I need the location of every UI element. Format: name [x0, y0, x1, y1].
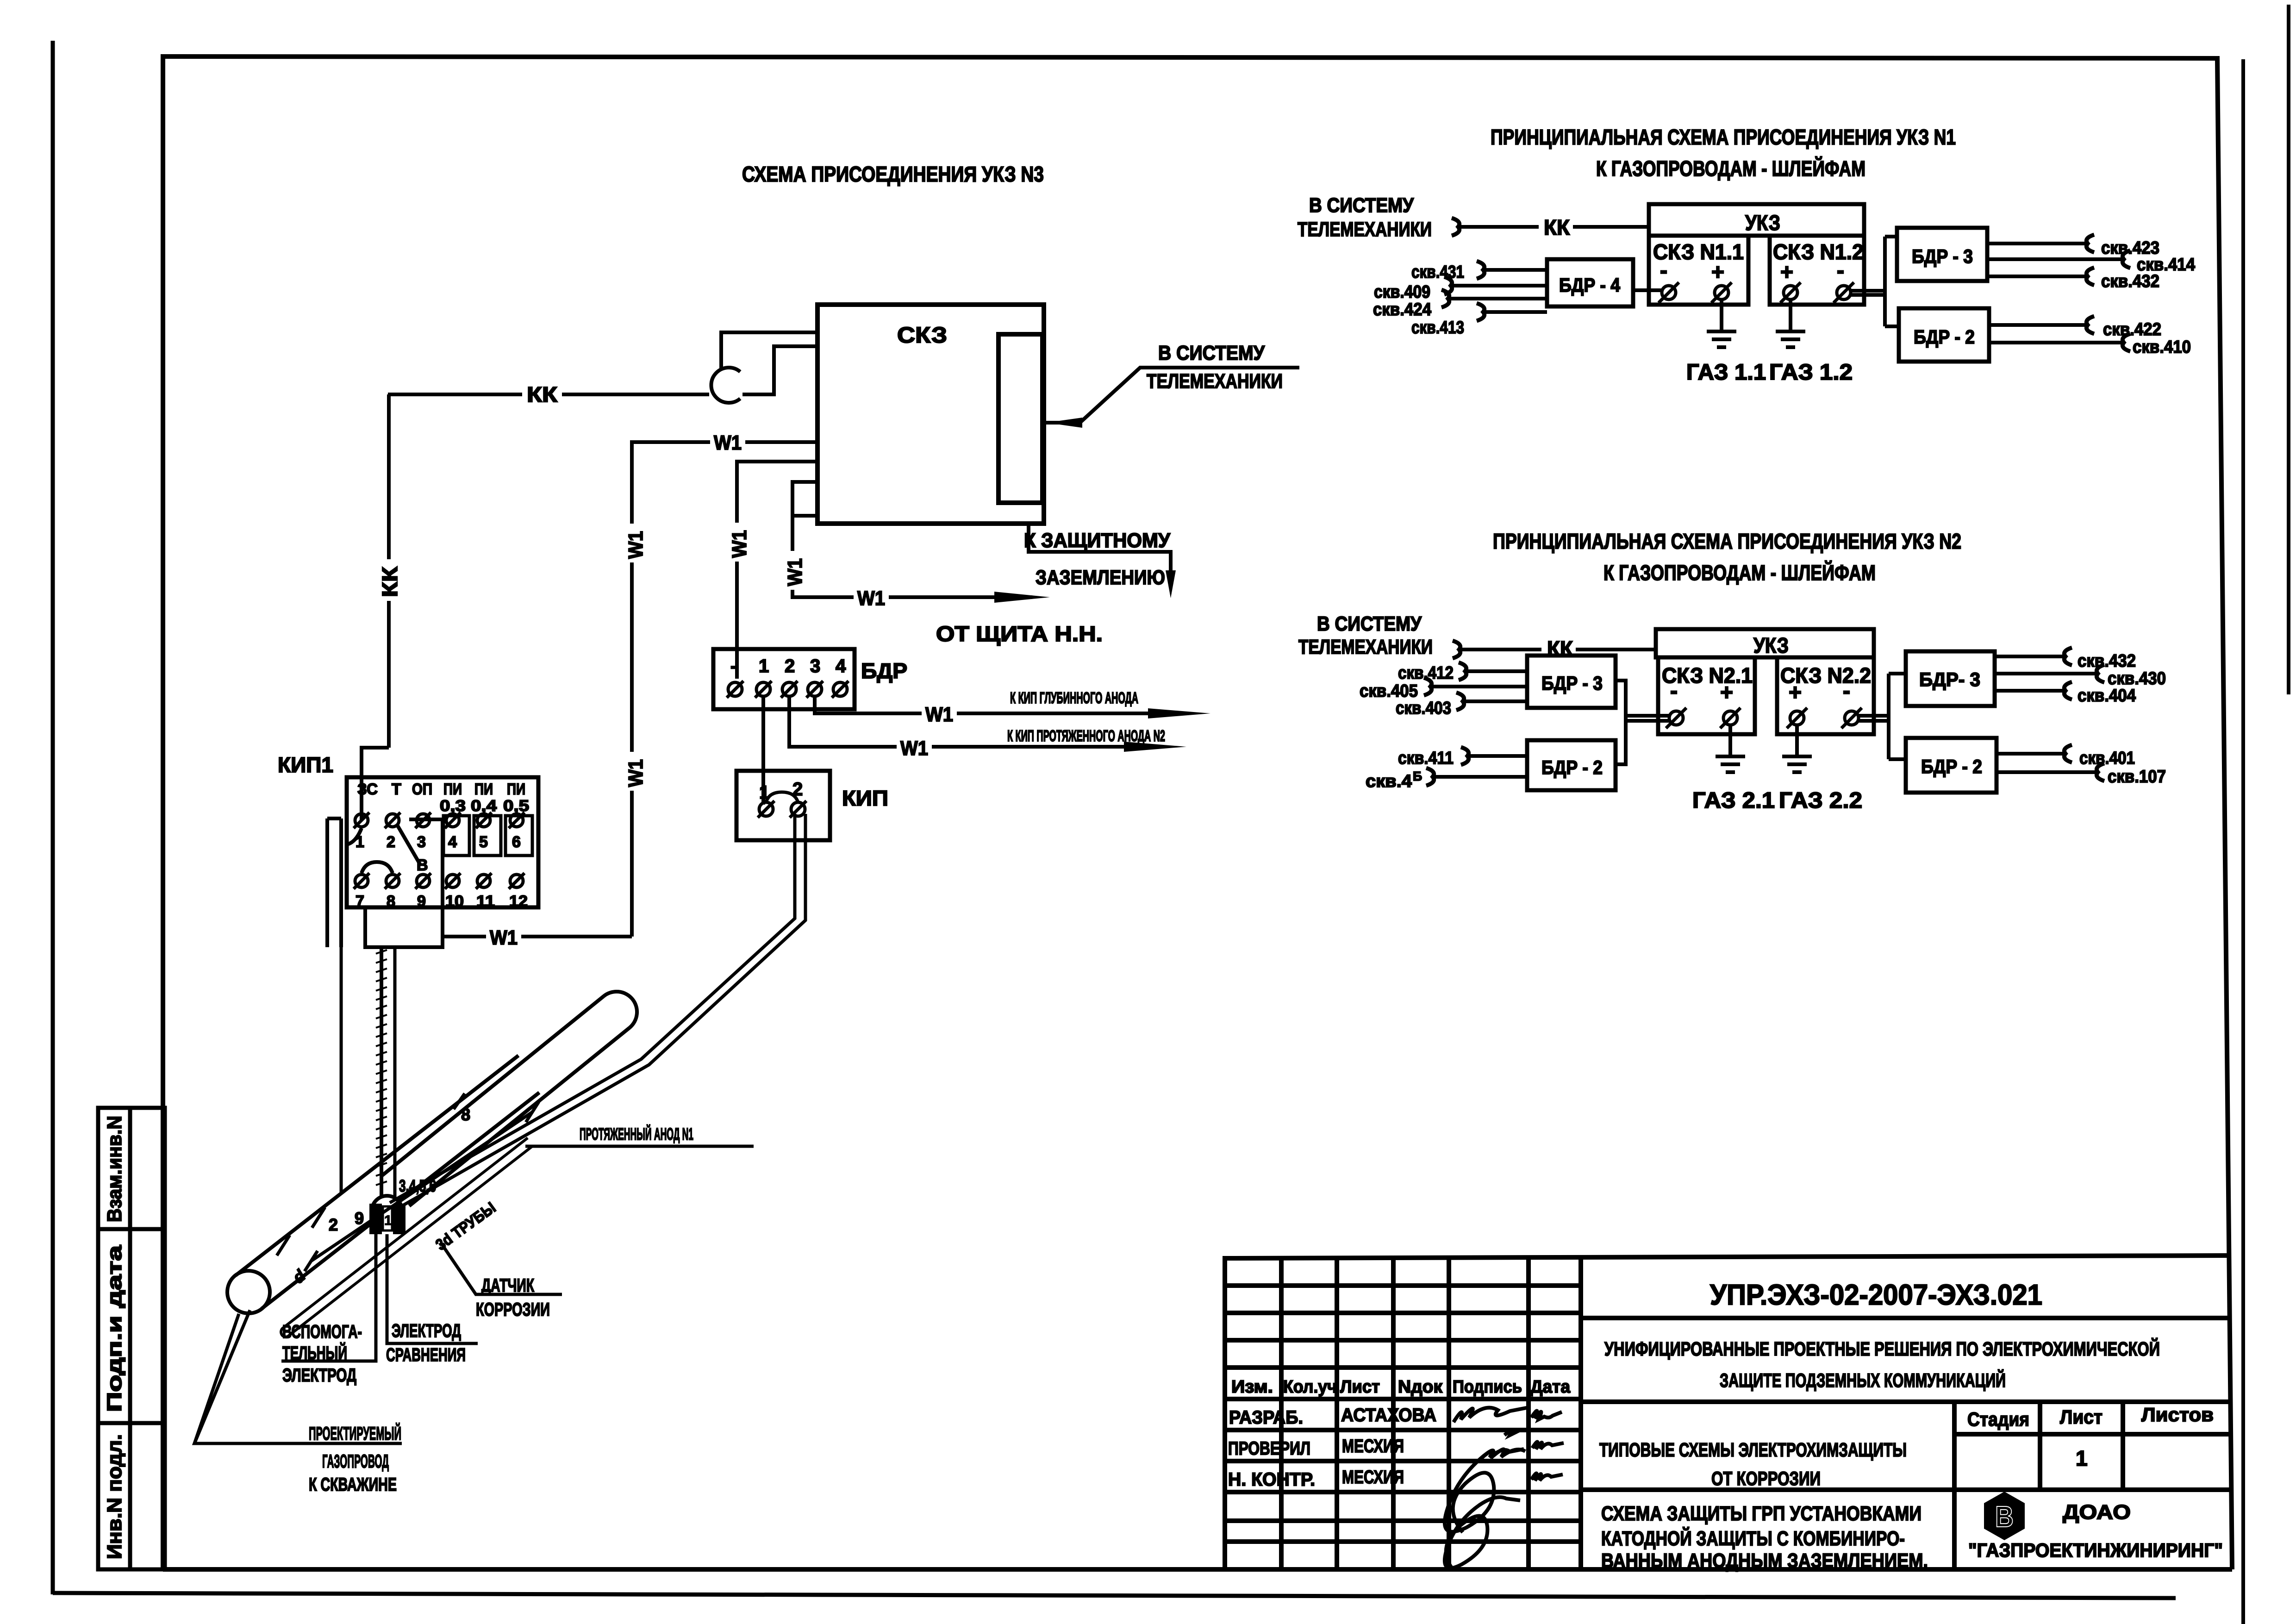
leader ВСПОМОГАТЕЛЬНЫЙ — [281, 1234, 376, 1361]
wire скв.414 — [1987, 257, 2124, 261]
svg-text:3: 3 — [810, 656, 820, 676]
svg-text:8: 8 — [387, 893, 395, 910]
svg-text:Изм.: Изм. — [1231, 1377, 1273, 1397]
svg-text:Н. КОНТР.: Н. КОНТР. — [1228, 1469, 1315, 1490]
svg-text:W1: W1 — [900, 737, 928, 760]
svg-text:ПИ: ПИ — [474, 781, 493, 798]
КИП1 terminals row1 — [354, 812, 524, 828]
svg-text:Nдок: Nдок — [1398, 1377, 1443, 1397]
svg-text:скв.107: скв.107 — [2108, 767, 2166, 787]
svg-text:ТЕЛЕМЕХАНИКИ: ТЕЛЕМЕХАНИКИ — [1147, 370, 1283, 393]
connector assembly on pipe — [369, 1196, 406, 1234]
svg-text:+: + — [1780, 260, 1793, 285]
label КК on horizontal wire — [522, 382, 562, 405]
svg-text:+: + — [1711, 260, 1724, 285]
block СКЗ box — [817, 305, 1044, 524]
svg-text:скв.430: скв.430 — [2108, 669, 2166, 688]
wire КК outer loop to СКЗ — [721, 332, 817, 369]
block КИП1 box — [347, 777, 538, 907]
svg-text:ПИ: ПИ — [443, 781, 462, 798]
scan edge left line — [51, 41, 55, 1594]
svg-text:БДР - 2: БДР - 2 — [1914, 326, 1975, 348]
ground ГАЗ 2.1 — [1716, 725, 1745, 772]
block БДР-2 N2 right — [1906, 738, 1997, 793]
svg-text:ГАЗ 1.2: ГАЗ 1.2 — [1769, 360, 1853, 385]
wire КК into КИП1 — [362, 748, 389, 820]
svg-text:СХЕМА ПРИСОЕДИНЕНИЯ УКЗ N3: СХЕМА ПРИСОЕДИНЕНИЯ УКЗ N3 — [742, 162, 1044, 186]
svg-text:РАЗРАБ.: РАЗРАБ. — [1229, 1407, 1303, 1428]
terminals СКЗ N2 — [1666, 708, 1862, 728]
svg-text:ДАТЧИК: ДАТЧИК — [481, 1275, 534, 1296]
wire К ЗАЩИТНОМУ ЗАЗЕМЛЕНИЮ — [1029, 524, 1176, 598]
svg-text:БДР- 3: БДР- 3 — [1919, 668, 1980, 690]
svg-text:КИП1: КИП1 — [278, 753, 333, 777]
wires скв into left БДР-2 — [1433, 756, 1527, 777]
svg-text:СРАВНЕНИЯ: СРАВНЕНИЯ — [386, 1345, 466, 1365]
logo hexagon — [1984, 1492, 2025, 1540]
svg-text:КИП: КИП — [842, 786, 888, 810]
svg-text:4: 4 — [836, 656, 846, 676]
svg-text:0,5: 0,5 — [503, 797, 529, 815]
svg-text:Кол.уч: Кол.уч — [1283, 1377, 1337, 1397]
svg-text:АСТАХОВА: АСТАХОВА — [1341, 1405, 1436, 1425]
svg-text:ПИ: ПИ — [507, 781, 525, 798]
wire В СИСТЕМУ ТЕЛЕМЕХАНИКИ leader — [1044, 368, 1299, 428]
svg-text:11: 11 — [476, 893, 495, 910]
svg-text:Подп.и дата: Подп.и дата — [103, 1245, 126, 1412]
wire скв.422 — [1989, 323, 2088, 327]
svg-text:8: 8 — [461, 1105, 470, 1124]
svg-text:ЭЛЕКТРОД: ЭЛЕКТРОД — [392, 1321, 461, 1341]
svg-text:скв.409: скв.409 — [1374, 282, 1430, 302]
svg-text:+: + — [1789, 681, 1802, 705]
wire скв.432 N2 — [1995, 655, 2065, 658]
wire скв.401 N2 — [1997, 752, 2065, 756]
block БДР-2 N1 — [1899, 308, 1989, 362]
КИП1 ПИ sub-boxes — [443, 816, 532, 856]
ground ГАЗ 2.2 — [1782, 725, 1812, 772]
wire КК N2 — [1459, 648, 1656, 651]
svg-text:-: - — [1843, 679, 1850, 703]
svg-text:Стадия: Стадия — [1967, 1408, 2029, 1430]
svg-text:скв.410: скв.410 — [2133, 337, 2191, 357]
underline ПРОТЯЖЕННЫЙ АНОД N1 — [525, 1145, 754, 1148]
scan edge bottom line — [53, 1593, 2176, 1598]
block БДР-2 N2 left — [1527, 740, 1616, 790]
svg-text:КК: КК — [378, 566, 402, 597]
svg-text:скв.404: скв.404 — [2078, 686, 2136, 706]
svg-text:"ГАЗПРОЕКТИНЖИНИРИНГ": "ГАЗПРОЕКТИНЖИНИРИНГ" — [1968, 1539, 2223, 1561]
label W1 on КИП1 wire — [486, 926, 521, 947]
svg-text:-: - — [1670, 679, 1678, 703]
svg-text:скв.432: скв.432 — [2101, 272, 2159, 291]
svg-text:ЗАЩИТЕ ПОДЗЕМНЫХ КОММУНИКАЦИЙ: ЗАЩИТЕ ПОДЗЕМНЫХ КОММУНИКАЦИЙ — [1720, 1369, 2006, 1391]
svg-text:ГАЗ 1.1: ГАЗ 1.1 — [1686, 360, 1766, 385]
svg-text:В СИСТЕМУ: В СИСТЕМУ — [1317, 612, 1422, 635]
wire W1 БДР minus to СКЗ (x1592) — [737, 462, 817, 679]
svg-text:ЗАЗЕМЛЕНИЮ: ЗАЗЕМЛЕНИЮ — [1036, 566, 1165, 589]
КИП1 terminals row2 — [354, 873, 524, 889]
svg-text:УКЗ: УКЗ — [1753, 633, 1789, 657]
svg-text:скв.405: скв.405 — [1360, 681, 1418, 701]
svg-text:К ЗАЩИТНОМУ: К ЗАЩИТНОМУ — [1024, 529, 1171, 552]
wires скв into БДР-4 — [1448, 270, 1547, 312]
svg-text:ГАЗ 2.1: ГАЗ 2.1 — [1692, 788, 1775, 813]
svg-text:В: В — [1995, 1500, 2014, 1533]
КИП cable to pipe (double line) — [390, 814, 805, 1209]
svg-text:5: 5 — [479, 833, 488, 851]
svg-text:ОТ КОРРОЗИИ: ОТ КОРРОЗИИ — [1711, 1468, 1821, 1489]
svg-text:2: 2 — [329, 1215, 338, 1234]
right part rows — [1581, 1316, 2231, 1320]
label W1 on x1712 wire — [782, 551, 806, 590]
svg-text:МЕСХИЯ: МЕСХИЯ — [1342, 1467, 1404, 1487]
svg-text:Взам.инв.N: Взам.инв.N — [103, 1116, 126, 1222]
leader ДАТЧИК КОРРОЗИИ — [441, 1243, 562, 1294]
label W1 on horizontal СКЗ wire — [710, 431, 745, 452]
svg-text:Лист: Лист — [1340, 1377, 1380, 1397]
svg-text:-: - — [1837, 258, 1844, 283]
svg-text:ПРИНЦИПИАЛЬНАЯ СХЕМА ПРИСОЕДИН: ПРИНЦИПИАЛЬНАЯ СХЕМА ПРИСОЕДИНЕНИЯ УКЗ N… — [1491, 125, 1956, 149]
svg-text:КК: КК — [527, 382, 558, 406]
dimension ticks on pipe — [277, 1093, 539, 1271]
svg-text:ГАЗ 2.2: ГАЗ 2.2 — [1779, 788, 1862, 813]
block БДР-3 N2 left — [1527, 656, 1616, 708]
wire БДР1 to КИП1 terminal — [761, 696, 765, 805]
svg-text:0,3: 0,3 — [440, 797, 466, 815]
svg-text:скв.4: скв.4 — [1366, 772, 1412, 791]
wire КК hop arc — [711, 368, 740, 403]
КИП1 switch blade — [397, 825, 420, 865]
КИП1 stepped enclosure — [327, 818, 443, 947]
anode ПРОТЯЖЕННЫЙ АНОД N1 capsule — [381, 992, 637, 1206]
label КК on vertical bus — [378, 559, 402, 601]
block СКЗ N2.2 — [1777, 657, 1874, 734]
wire W1 КИП1 to СКЗ — [443, 935, 632, 938]
svg-text:0,4: 0,4 — [471, 797, 497, 815]
svg-text:3: 3 — [417, 833, 426, 851]
title block outer — [1225, 1255, 2230, 1569]
svg-text:W1: W1 — [925, 703, 953, 726]
svg-text:БДР - 2: БДР - 2 — [1541, 756, 1603, 778]
hook КК N1 — [1452, 218, 1460, 236]
svg-text:В СИСТЕМУ: В СИСТЕМУ — [1158, 342, 1265, 364]
svg-text:скв.411: скв.411 — [1398, 749, 1454, 768]
dimension line 3d трубы — [311, 1112, 532, 1261]
block УКЗ band N1 — [1649, 204, 1864, 236]
svg-text:скв.412: скв.412 — [1398, 663, 1454, 683]
block СКЗ N1.1 — [1649, 236, 1748, 305]
hatched electrode cable — [380, 947, 383, 1197]
svg-text:6: 6 — [512, 833, 521, 851]
svg-text:ДОАО: ДОАО — [2063, 1501, 2131, 1524]
label W1 on x1592 wire — [727, 523, 751, 562]
wire БДР2 К КИП ПРОТЯЖЕННОГО АНОДА N2 — [789, 696, 1186, 752]
svg-text:УНИФИЦИРОВАННЫЕ ПРОЕКТНЫЕ РЕШЕ: УНИФИЦИРОВАННЫЕ ПРОЕКТНЫЕ РЕШЕНИЯ ПО ЭЛЕ… — [1604, 1337, 2160, 1360]
svg-text:БДР - 3: БДР - 3 — [1912, 245, 1973, 267]
svg-text:W1: W1 — [728, 530, 751, 558]
wire скв.430 N2 — [1995, 672, 2098, 675]
svg-text:+: + — [1720, 681, 1733, 705]
svg-text:2: 2 — [785, 656, 795, 676]
svg-text:ТЕЛЕМЕХАНИКИ: ТЕЛЕМЕХАНИКИ — [1298, 218, 1432, 241]
aux electrode rod — [281, 1138, 532, 1337]
svg-text:Т: Т — [392, 781, 401, 798]
svg-text:скв.413: скв.413 — [1411, 318, 1464, 337]
wire скв.423 — [1987, 242, 2088, 245]
svg-text:ГАЗОПРОВОД: ГАЗОПРОВОД — [322, 1451, 389, 1472]
block УКЗ band N2 — [1656, 629, 1874, 657]
block БДР-3 N1 — [1897, 228, 1987, 281]
svg-text:УКЗ: УКЗ — [1745, 211, 1780, 235]
svg-text:скв.403: скв.403 — [1396, 699, 1451, 718]
block СКЗ N2.1 — [1658, 657, 1755, 734]
svg-text:1: 1 — [759, 656, 769, 676]
КИП terminals — [758, 792, 806, 818]
svg-text:К СКВАЖИНЕ: К СКВАЖИНЕ — [309, 1474, 397, 1495]
wire скв.404 N2 — [1995, 689, 2065, 693]
svg-text:Листов: Листов — [2141, 1404, 2214, 1425]
svg-text:БДР - 3: БДР - 3 — [1541, 672, 1603, 694]
svg-text:КАТОДНОЙ ЗАЩИТЫ С КОМБИНИРО-: КАТОДНОЙ ЗАЩИТЫ С КОМБИНИРО- — [1601, 1526, 1905, 1550]
svg-text:скв.401: скв.401 — [2079, 749, 2135, 768]
svg-text:БДР - 4: БДР - 4 — [1559, 274, 1621, 296]
leader ЭЛЕКТРОД СРАВНЕНИЯ — [387, 1234, 478, 1343]
svg-text:-: - — [1660, 258, 1667, 283]
scan edge far right line — [2287, 5, 2290, 694]
cable verticals below КИП1 — [341, 947, 395, 1200]
wire БДР-4 to ø1 — [1633, 288, 1662, 292]
terminals СКЗ N1 — [1659, 282, 1854, 303]
svg-text:К ГАЗОПРОВОДАМ - ШЛЕЙФАМ: К ГАЗОПРОВОДАМ - ШЛЕЙФАМ — [1596, 156, 1865, 181]
svg-text:К ГАЗОПРОВОДАМ - ШЛЕЙФАМ: К ГАЗОПРОВОДАМ - ШЛЕЙФАМ — [1603, 561, 1876, 585]
стадия columns — [1952, 1402, 1957, 1569]
svg-text:2: 2 — [387, 833, 395, 851]
block СКЗ N1.2 — [1770, 236, 1864, 305]
svg-text:W1: W1 — [714, 431, 742, 454]
wire КК horizontal — [388, 393, 523, 396]
svg-text:4: 4 — [448, 833, 457, 851]
svg-text:КК: КК — [1544, 215, 1570, 239]
svg-text:1: 1 — [384, 1213, 392, 1228]
wire скв.432 — [1987, 275, 2088, 278]
wire КК N1 — [1458, 225, 1649, 229]
СКЗ inner rect — [998, 334, 1042, 503]
ground ГАЗ 1.1 — [1707, 300, 1736, 347]
label W1 — [922, 703, 957, 724]
svg-text:В СИСТЕМУ: В СИСТЕМУ — [1309, 194, 1414, 217]
svg-text:ВСПОМОГА-: ВСПОМОГА- — [282, 1322, 362, 1342]
svg-text:К КИП ГЛУБИННОГО АНОДА: К КИП ГЛУБИННОГО АНОДА — [1010, 689, 1138, 707]
svg-text:W1: W1 — [784, 558, 806, 586]
svg-text:скв.432: скв.432 — [2078, 651, 2136, 671]
svg-text:9: 9 — [417, 893, 426, 910]
svg-text:ТЕЛЕМЕХАНИКИ: ТЕЛЕМЕХАНИКИ — [1298, 636, 1433, 658]
svg-text:Б: Б — [1413, 769, 1422, 783]
arrow ОТ ЩИТА wire — [994, 592, 1050, 603]
svg-text:скв.422: скв.422 — [2103, 320, 2161, 339]
svg-text:Дата: Дата — [1530, 1377, 1571, 1397]
svg-text:ВАННЫМ АНОДНЫМ ЗАЗЕМЛЕНИЕМ.: ВАННЫМ АНОДНЫМ ЗАЗЕМЛЕНИЕМ. — [1601, 1549, 1928, 1572]
block КИП box — [736, 771, 830, 840]
svg-text:Подпись: Подпись — [1453, 1377, 1522, 1397]
КИП loop wire between terminals — [766, 792, 798, 802]
svg-text:ПРОТЯЖЕННЫЙ АНОД N1: ПРОТЯЖЕННЫЙ АНОД N1 — [580, 1124, 693, 1143]
wire КК vertical bus — [387, 394, 391, 748]
svg-text:БДР: БДР — [861, 659, 907, 683]
wire link left БДР to СКЗ N2.1 (double) — [1616, 681, 1669, 764]
svg-text:СХЕМА ЗАЩИТЫ ГРП УСТАНОВКАМИ: СХЕМА ЗАЩИТЫ ГРП УСТАНОВКАМИ — [1601, 1502, 1922, 1525]
wire W1 ОТ ЩИТА to СКЗ (x1712) — [792, 482, 1032, 597]
svg-text:ОП: ОП — [412, 781, 432, 798]
wire скв.410 — [1989, 341, 2124, 344]
svg-text:1: 1 — [2076, 1446, 2088, 1470]
label W1 — [897, 737, 932, 758]
svg-text:скв.431: скв.431 — [1411, 262, 1464, 282]
wire W1 from КИП1 to СКЗ (x1365) — [632, 442, 817, 937]
block БДР-4 — [1547, 259, 1633, 306]
pipe газопровод — [227, 1056, 539, 1313]
svg-text:7: 7 — [356, 893, 364, 910]
signature scribbles — [1445, 1408, 1564, 1568]
block БДР box — [713, 649, 855, 709]
svg-text:КОРРОЗИИ: КОРРОЗИИ — [476, 1299, 550, 1320]
leader ПРОЕКТИРУЕМЫЙ — [194, 1310, 402, 1443]
svg-text:ПРОЕКТИРУЕМЫЙ: ПРОЕКТИРУЕМЫЙ — [309, 1423, 401, 1444]
svg-text:Инв.N подл.: Инв.N подл. — [103, 1434, 126, 1559]
block БДР-3 N2 right — [1906, 651, 1995, 706]
svg-text:ЭЛЕКТРОД: ЭЛЕКТРОД — [282, 1365, 356, 1386]
wire КК inner loop to СКЗ — [742, 346, 817, 394]
svg-text:W1: W1 — [624, 759, 647, 787]
title block main verticals — [1578, 1258, 1583, 1569]
left side column table — [98, 1108, 165, 1569]
svg-text:БДР - 2: БДР - 2 — [1921, 756, 1982, 777]
label W1 on x1365 wire (upper) — [623, 524, 647, 562]
wire скв.107 N2 — [1997, 770, 2098, 774]
svg-text:СКЗ: СКЗ — [897, 323, 947, 348]
svg-text:скв.424: скв.424 — [1373, 300, 1431, 319]
wire stub СКЗ y1114 — [792, 514, 817, 518]
label W1 on ОТ ЩИТА wire — [854, 587, 889, 608]
wire ø4 to БДР-3/БДР-2 junction — [1851, 237, 1899, 326]
svg-text:10: 10 — [445, 893, 464, 910]
svg-text:ЗС: ЗС — [357, 781, 378, 798]
wire ø4 to right БДР junction (double) — [1859, 674, 1906, 759]
svg-text:УПР.ЭХЗ-02-2007-ЭХЗ.021: УПР.ЭХЗ-02-2007-ЭХЗ.021 — [1710, 1279, 2042, 1311]
svg-text:ПРОВЕРИЛ: ПРОВЕРИЛ — [1228, 1438, 1310, 1459]
scan edge right line — [2241, 59, 2245, 1624]
БДР terminals — [727, 681, 849, 698]
wire БДР3 К КИП ГЛУБИННОГО АНОДА — [815, 696, 1210, 718]
svg-text:ТИПОВЫЕ СХЕМЫ ЭЛЕКТРОХИМЗАЩИТЫ: ТИПОВЫЕ СХЕМЫ ЭЛЕКТРОХИМЗАЩИТЫ — [1599, 1439, 1907, 1461]
left table rows — [1225, 1283, 1581, 1288]
svg-text:Лист: Лист — [2060, 1406, 2103, 1428]
label W1 on x1365 wire (lower) — [623, 752, 647, 791]
wires скв into left БДР-3 — [1430, 671, 1527, 701]
svg-text:W1: W1 — [857, 587, 885, 610]
svg-text:МЕСХИЯ: МЕСХИЯ — [1342, 1436, 1404, 1456]
svg-text:W1: W1 — [490, 926, 518, 949]
ground ГАЗ 1.2 — [1776, 300, 1805, 347]
svg-text:К КИП ПРОТЯЖЕННОГО АНОДА N2: К КИП ПРОТЯЖЕННОГО АНОДА N2 — [1007, 727, 1165, 745]
svg-text:-: - — [730, 656, 736, 676]
svg-text:W1: W1 — [624, 531, 647, 559]
svg-text:12: 12 — [509, 893, 528, 910]
svg-text:ПРИНЦИПИАЛЬНАЯ СХЕМА ПРИСОЕДИН: ПРИНЦИПИАЛЬНАЯ СХЕМА ПРИСОЕДИНЕНИЯ УКЗ N… — [1493, 529, 1961, 553]
svg-text:ОТ ЩИТА Н.Н.: ОТ ЩИТА Н.Н. — [936, 622, 1103, 646]
